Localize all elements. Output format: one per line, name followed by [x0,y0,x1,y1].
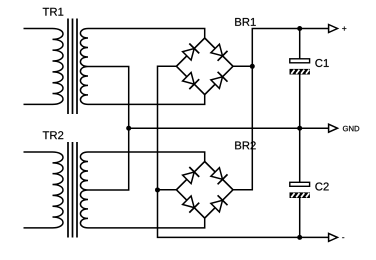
transformer TR1 primary bottom terminal wire [24,103,53,105]
transformer TR2 secondary winding (center-tapped) [80,152,88,228]
diode BR1 D1 (upper-left) [183,49,195,61]
capacitor C1 reference label [315,59,328,67]
wire: TR2 secondary top to BR2 AC input (top) [88,152,205,162]
wire: TR2 secondary bottom to BR2 AC input (bottom) [88,218,205,228]
diode BR2 D1 (upper-left) [183,172,195,184]
wire: TR2 center tap up to GND junction [88,128,129,190]
wire: BR2 - output stub [158,189,177,191]
bridge BR2 reference label [235,141,255,149]
diode BR2 D2 (upper-right) [211,168,223,180]
diode BR2 D3 (lower-left) [183,196,195,208]
junction: C2 bottom on negative rail [297,235,302,240]
junction: BR1 + output on positive riser [250,64,255,69]
capacitor C2 bottom plate (hatched / negative) [290,192,310,198]
capacitor C1 bottom plate (hatched / negative) [290,69,310,75]
wire: BR2 + output riser up and positive rail to + terminal [233,29,329,190]
output terminal arrow (positive output +) [329,25,338,33]
transformer TR1 reference label [43,8,64,16]
transformer TR1 secondary winding (center-tapped) [80,29,88,105]
bridge BR1 reference label [235,18,256,26]
bridge rectifier BR1 outline [176,38,233,95]
diode BR1 D2 (upper-right) [211,44,223,56]
transformer TR2 primary top terminal wire [24,151,53,153]
wire: TR1 secondary top to BR1 AC input (top) [88,29,205,39]
transformer TR2 primary bottom terminal wire [24,227,53,229]
wire: C1 top lead [299,29,301,60]
diode BR2 D4 (lower-right) [211,200,223,212]
junction: BR2 - output on negative riser [155,187,160,192]
junction: C1 top on positive rail [297,26,302,31]
wire: C2 bottom lead [299,198,301,238]
transformer TR2 laminated core [67,142,69,238]
junction: C1/C2 on GND rail [297,126,302,131]
transformer TR2 primary winding [53,152,64,228]
transformer TR1 primary top terminal wire [24,28,53,30]
transformer TR1 primary winding [53,29,64,105]
capacitor C1 top plate [290,59,310,63]
output terminal arrow (ground output GND) [329,124,338,132]
wire: GND rail to GND terminal [129,127,329,129]
bridge rectifier BR2 outline [176,162,233,219]
terminal label + [342,26,346,30]
wire: TR1 secondary bottom to BR1 AC input (bottom) [88,95,205,105]
capacitor C2 reference label [315,183,328,191]
diode BR1 D4 (lower-right) [211,77,223,89]
junction: TR1/TR2 center taps to GND rail [126,126,131,131]
wire: BR1 + output stub [233,65,252,67]
output terminal arrow (negative output -) [329,233,338,241]
capacitor C2 top plate [290,182,310,186]
wire: BR1 - output riser down and negative rail to - terminal [158,66,329,237]
transformer TR2 reference label [43,131,64,139]
terminal label GND [343,126,359,131]
wire: TR1 center tap down to GND junction [88,66,129,128]
wire: C1 bottom lead [299,74,301,128]
diode BR1 D3 (lower-left) [183,73,195,85]
wire: C2 top lead [299,128,301,183]
terminal label - [342,236,344,239]
transformer TR1 laminated core [67,19,69,115]
